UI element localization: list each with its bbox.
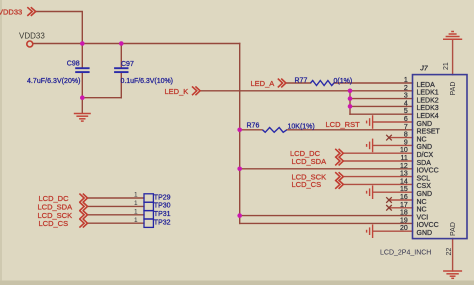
svg-text:J7: J7 bbox=[420, 66, 429, 73]
svg-text:1: 1 bbox=[134, 208, 138, 215]
svg-text:0(1%): 0(1%) bbox=[334, 78, 353, 85]
port LCD_SDA tp bbox=[79, 202, 87, 211]
top ground pin21 bbox=[443, 32, 462, 40]
svg-text:RESET: RESET bbox=[417, 129, 441, 136]
svg-text:GND: GND bbox=[417, 121, 433, 128]
svg-text:LEDK4: LEDK4 bbox=[417, 113, 439, 120]
pin names bbox=[417, 82, 441, 237]
capacitor C98 bbox=[75, 68, 89, 72]
wire TP32 bbox=[89, 222, 144, 224]
junction LEDK pin4 bbox=[348, 104, 353, 109]
wire rail to pin12 IOVCC bbox=[240, 168, 413, 170]
svg-text:11: 11 bbox=[401, 155, 408, 162]
testpoint TP30 bbox=[144, 202, 153, 210]
testpoint TP32 bbox=[144, 219, 153, 227]
junction rail R76 bbox=[237, 128, 242, 133]
svg-text:VCI: VCI bbox=[417, 214, 429, 221]
power port VDD33 circle bbox=[27, 41, 33, 47]
svg-text:VDD33: VDD33 bbox=[0, 8, 22, 17]
no connect X pin16 bbox=[386, 197, 392, 203]
wire rail to pin18 VCI bbox=[240, 215, 413, 217]
sideways ground pin6 bbox=[367, 115, 373, 129]
left window edge bbox=[0, 0, 2, 285]
svg-text:7: 7 bbox=[404, 124, 408, 131]
wire C98 top bbox=[81, 44, 83, 68]
svg-text:GND: GND bbox=[417, 230, 433, 237]
svg-text:C97: C97 bbox=[121, 61, 134, 68]
svg-text:10K(1%): 10K(1%) bbox=[288, 123, 315, 130]
svg-text:3: 3 bbox=[404, 93, 408, 100]
wire LEDK vertical rail bbox=[349, 91, 351, 114]
svg-text:LCD_CS: LCD_CS bbox=[39, 219, 69, 228]
svg-text:6: 6 bbox=[404, 116, 408, 123]
wire VDD33 vertical rail bbox=[239, 44, 241, 224]
wire C97 bottom bbox=[120, 73, 122, 98]
svg-text:TP30: TP30 bbox=[154, 203, 171, 210]
wire LCD_DC to pin10 D/CX bbox=[344, 152, 413, 154]
svg-text:4.7uF/6.3V(20%): 4.7uF/6.3V(20%) bbox=[27, 78, 81, 85]
svg-text:LCD_2P4_INCH: LCD_2P4_INCH bbox=[380, 250, 431, 257]
svg-text:SCL: SCL bbox=[417, 175, 431, 182]
svg-text:14: 14 bbox=[400, 178, 408, 185]
svg-text:1: 1 bbox=[404, 77, 408, 84]
wire to pin4 LEDK3 bbox=[350, 105, 413, 107]
connector J7 box bbox=[413, 75, 468, 239]
junction rail pin12 bbox=[237, 167, 242, 172]
resistor R77 bbox=[311, 81, 335, 86]
svg-text:R76: R76 bbox=[247, 122, 260, 129]
port LCD_DC tp bbox=[79, 194, 87, 203]
svg-text:8: 8 bbox=[404, 132, 408, 139]
pin numbers bbox=[400, 77, 408, 232]
capacitor C97 bbox=[114, 68, 128, 72]
wire pin15 GND bbox=[373, 191, 413, 193]
wire to pin3 LEDK2 bbox=[350, 98, 413, 100]
junction rail pin18 bbox=[237, 213, 242, 218]
wire C97 top bbox=[120, 44, 122, 68]
port LCD_CS bbox=[335, 180, 343, 189]
svg-text:NC: NC bbox=[417, 207, 427, 214]
svg-text:16: 16 bbox=[400, 194, 408, 201]
svg-text:VDD33: VDD33 bbox=[19, 31, 45, 40]
svg-text:PAD: PAD bbox=[450, 222, 457, 236]
no connect X pin17 bbox=[386, 205, 392, 211]
wire R76 to pin7 RESET bbox=[287, 129, 413, 131]
svg-text:TP31: TP31 bbox=[154, 211, 171, 218]
junction at C97 top bbox=[119, 41, 124, 46]
wire pin16 NC stub bbox=[389, 199, 413, 201]
port LCD_CS tp bbox=[79, 219, 87, 228]
wire pin17 NC stub bbox=[389, 207, 413, 209]
junction at C98 top bbox=[80, 41, 85, 46]
svg-text:R77: R77 bbox=[295, 77, 308, 84]
svg-text:10: 10 bbox=[400, 147, 408, 154]
port LCD_DC bbox=[335, 149, 343, 158]
svg-text:GND: GND bbox=[417, 191, 433, 198]
svg-text:15: 15 bbox=[400, 186, 408, 193]
svg-text:19: 19 bbox=[400, 217, 408, 224]
wire pin20 GND bbox=[373, 230, 413, 232]
svg-text:CSX: CSX bbox=[417, 183, 432, 190]
sideways ground pin9 bbox=[367, 139, 373, 153]
svg-text:12: 12 bbox=[400, 163, 408, 170]
sideways ground pin20 bbox=[367, 224, 373, 238]
wire TP30 bbox=[89, 205, 144, 207]
port LCD_SCK tp bbox=[79, 210, 87, 219]
wire LCD_CS to pin14 CSX bbox=[344, 183, 413, 185]
wire rail to pin19 IOVCC bbox=[240, 222, 413, 224]
svg-text:LEDA: LEDA bbox=[417, 82, 436, 89]
svg-text:LEDK3: LEDK3 bbox=[417, 105, 439, 112]
svg-text:2: 2 bbox=[404, 85, 408, 92]
svg-text:LED_A: LED_A bbox=[251, 79, 275, 88]
wire pin21 PAD to top ground bbox=[452, 41, 454, 75]
wire VDD33 horizontal rail bbox=[33, 43, 240, 45]
svg-text:17: 17 bbox=[400, 202, 408, 209]
svg-text:LCD_CS: LCD_CS bbox=[292, 180, 322, 189]
wire to pin5 LEDK4 bbox=[350, 113, 413, 115]
svg-text:5: 5 bbox=[404, 108, 408, 115]
svg-text:20: 20 bbox=[400, 225, 408, 232]
wire pin22 PAD to bottom ground bbox=[452, 239, 454, 272]
bottom ground pin22 bbox=[443, 271, 462, 278]
svg-text:LCD_RST: LCD_RST bbox=[326, 120, 361, 129]
wire LED_A to R77 bbox=[286, 82, 310, 84]
svg-text:LED_K: LED_K bbox=[165, 87, 189, 96]
svg-text:0.1uF/6.3V(10%): 0.1uF/6.3V(10%) bbox=[121, 78, 174, 85]
wire C98 bottom bbox=[81, 73, 83, 98]
svg-text:NC: NC bbox=[417, 136, 427, 143]
wire LED_K to pin2 LEDK1 bbox=[201, 90, 413, 92]
wire VDD33 top port to corner bbox=[36, 12, 82, 44]
testpoint TP29 bbox=[144, 194, 153, 202]
wire rail to R76 bbox=[240, 129, 262, 131]
svg-text:GND: GND bbox=[417, 144, 433, 151]
svg-text:D/CX: D/CX bbox=[417, 152, 434, 159]
svg-text:C98: C98 bbox=[67, 61, 80, 68]
svg-text:IOVCC: IOVCC bbox=[417, 168, 439, 175]
port LED_A bbox=[278, 79, 286, 88]
svg-text:1: 1 bbox=[134, 200, 138, 207]
no connect X pin8 bbox=[386, 135, 392, 141]
wire TP29 bbox=[89, 197, 144, 199]
svg-text:NC: NC bbox=[417, 199, 427, 206]
svg-text:SDA: SDA bbox=[417, 160, 432, 167]
sideways ground pin15 bbox=[367, 185, 373, 199]
svg-text:21: 21 bbox=[443, 62, 450, 70]
port LCD_SCK bbox=[335, 172, 343, 181]
port VDD33 top-left bbox=[27, 7, 35, 16]
svg-text:22: 22 bbox=[446, 248, 453, 256]
svg-text:1: 1 bbox=[134, 217, 138, 224]
wire R77 to pin1 LEDA bbox=[334, 82, 413, 84]
wire ground join under caps bbox=[82, 98, 121, 113]
wire TP31 bbox=[89, 214, 144, 216]
svg-text:LCD_SDA: LCD_SDA bbox=[292, 157, 327, 166]
ground under caps bbox=[74, 114, 91, 122]
svg-text:TP32: TP32 bbox=[154, 220, 171, 227]
svg-text:18: 18 bbox=[400, 210, 408, 217]
wire LCD_SDA to pin11 SDA bbox=[344, 160, 413, 162]
junction LEDK pin2 bbox=[348, 89, 353, 94]
svg-text:1: 1 bbox=[134, 192, 138, 199]
svg-text:IOVCC: IOVCC bbox=[417, 222, 439, 229]
wire LCD_SCK to pin13 SCL bbox=[344, 176, 413, 178]
svg-text:LEDK1: LEDK1 bbox=[417, 90, 439, 97]
svg-text:PAD: PAD bbox=[450, 82, 457, 96]
svg-text:9: 9 bbox=[404, 139, 408, 146]
testpoint TP31 bbox=[144, 211, 153, 219]
wire pin8 NC stub bbox=[389, 137, 413, 139]
svg-text:TP29: TP29 bbox=[154, 194, 171, 201]
svg-text:LEDK2: LEDK2 bbox=[417, 97, 439, 104]
wire pin6 GND bbox=[373, 121, 413, 123]
port LCD_SDA bbox=[335, 157, 343, 166]
wire pin9 GND bbox=[373, 144, 413, 146]
svg-text:4: 4 bbox=[404, 100, 408, 107]
bottom window strip bbox=[0, 281, 474, 285]
junction LEDK pin3 bbox=[348, 96, 353, 101]
resistor R76 bbox=[263, 128, 287, 133]
port LED_K bbox=[192, 86, 200, 95]
junction under C98 bbox=[80, 95, 85, 100]
svg-text:13: 13 bbox=[400, 171, 408, 178]
